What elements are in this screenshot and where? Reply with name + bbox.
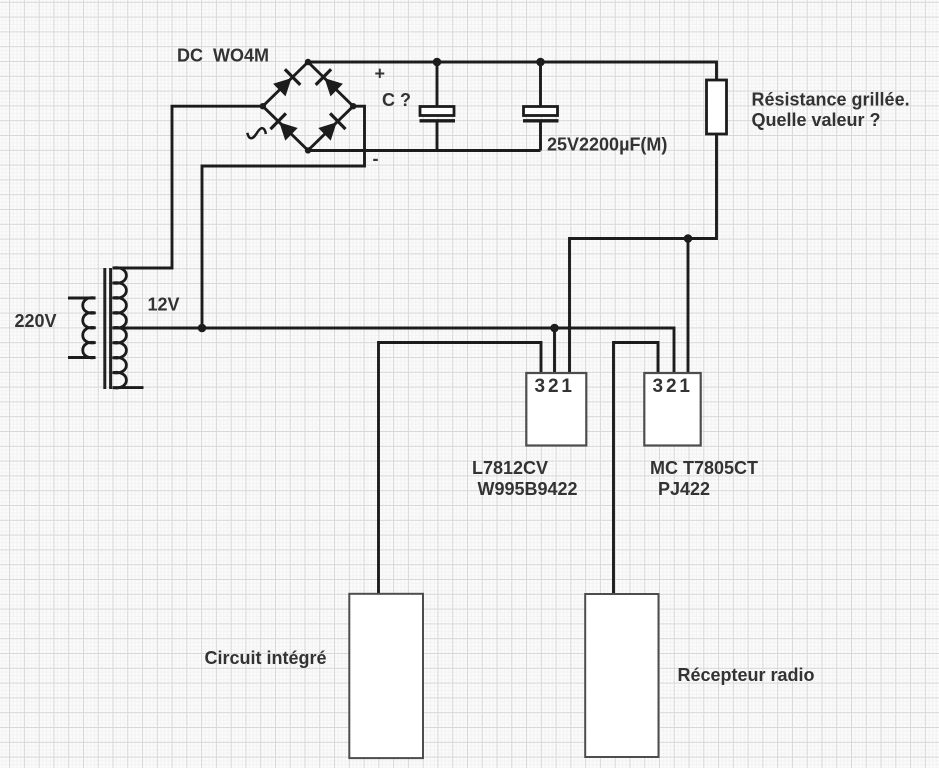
svg-text:C ?: C ? — [382, 90, 411, 110]
svg-text:DC WO4M: DC WO4M — [177, 46, 269, 66]
svg-text:Résistance grillée.: Résistance grillée. — [752, 90, 910, 110]
svg-text:MC T7805CT: MC T7805CT — [650, 458, 758, 478]
svg-text:12V: 12V — [148, 295, 180, 315]
svg-text:W995B9422: W995B9422 — [478, 479, 578, 499]
svg-text:L7812CV: L7812CV — [472, 458, 548, 478]
svg-text:Quelle valeur ?: Quelle valeur ? — [752, 110, 881, 130]
svg-text:PJ422: PJ422 — [658, 479, 710, 499]
svg-text:3 2 1: 3 2 1 — [653, 376, 691, 397]
svg-text:Récepteur radio: Récepteur radio — [678, 665, 815, 685]
svg-text:220V: 220V — [15, 311, 57, 331]
svg-text:+: + — [375, 64, 386, 84]
svg-text:Circuit intégré: Circuit intégré — [205, 648, 327, 668]
svg-text:-: - — [373, 149, 379, 169]
svg-text:25V2200µF(M): 25V2200µF(M) — [547, 135, 667, 155]
svg-text:3 2 1: 3 2 1 — [535, 376, 573, 397]
